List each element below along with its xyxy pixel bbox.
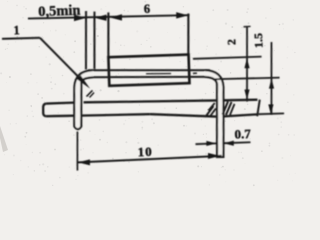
svg-text:2: 2 — [224, 39, 238, 45]
svg-text:6: 6 — [144, 2, 151, 16]
svg-text:0,5min: 0,5min — [38, 3, 81, 20]
svg-text:1.5: 1.5 — [251, 33, 265, 48]
svg-text:0.7: 0.7 — [234, 126, 251, 142]
svg-text:1: 1 — [13, 23, 20, 37]
svg-text:10: 10 — [137, 144, 152, 159]
